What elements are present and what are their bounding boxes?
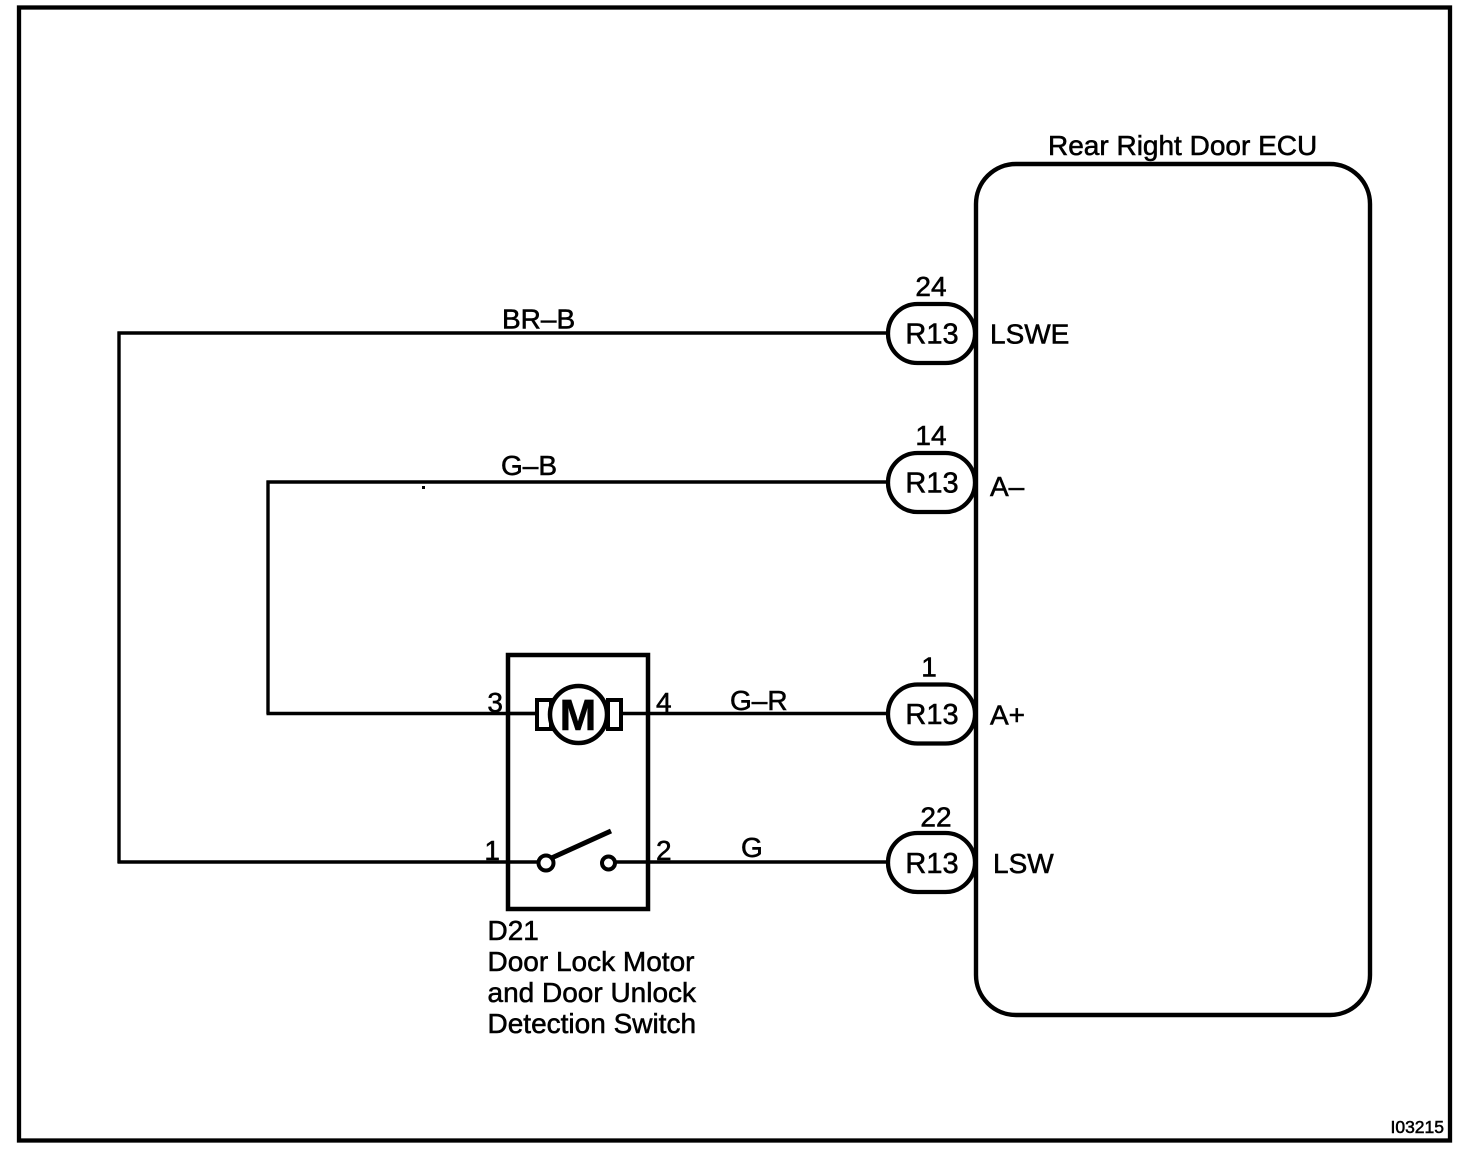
svg-text:I03215: I03215 <box>1390 1117 1444 1137</box>
svg-text:22: 22 <box>920 802 951 833</box>
svg-text:3: 3 <box>487 687 503 718</box>
svg-text:BR–B: BR–B <box>502 304 575 335</box>
svg-text:4: 4 <box>656 687 672 718</box>
svg-text:14: 14 <box>915 420 946 451</box>
svg-text:M: M <box>560 691 597 740</box>
svg-text:A–: A– <box>990 471 1025 502</box>
svg-text:D21: D21 <box>488 915 539 946</box>
svg-text:LSW: LSW <box>993 848 1054 879</box>
svg-text:Detection Switch: Detection Switch <box>488 1008 697 1039</box>
svg-text:R13: R13 <box>905 699 958 731</box>
svg-text:LSWE: LSWE <box>990 319 1069 350</box>
svg-text:Rear Right Door ECU: Rear Right Door ECU <box>1048 130 1317 161</box>
svg-text:and Door Unlock: and Door Unlock <box>488 977 698 1008</box>
svg-text:1: 1 <box>921 652 937 683</box>
svg-text:24: 24 <box>915 271 946 302</box>
svg-text:A+: A+ <box>990 700 1025 731</box>
svg-text:R13: R13 <box>905 319 958 351</box>
svg-text:R13: R13 <box>905 848 958 880</box>
svg-text:2: 2 <box>656 835 672 866</box>
svg-text:G–B: G–B <box>501 450 557 481</box>
svg-text:R13: R13 <box>905 468 958 500</box>
svg-text:Door Lock Motor: Door Lock Motor <box>488 946 695 977</box>
svg-text:G–R: G–R <box>730 685 788 716</box>
svg-text:1: 1 <box>484 835 500 866</box>
svg-text:G: G <box>741 832 763 863</box>
